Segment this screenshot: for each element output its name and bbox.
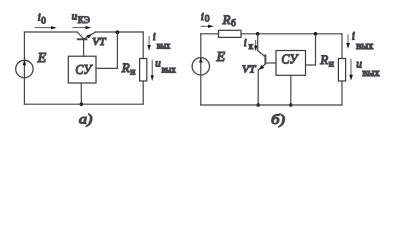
current source E (circle) circuit a: [16, 60, 33, 77]
wire: left branch of circuit b: [200, 34, 202, 105]
svg-text:н: н: [130, 67, 135, 77]
svg-text:0: 0: [41, 15, 46, 25]
svg-text:к: к: [249, 41, 254, 51]
svg-text:б: б: [231, 18, 236, 29]
wire: feedback from output node to СУ circuit a: [96, 32, 117, 68]
svg-text:СУ: СУ: [281, 51, 299, 66]
voltage arrow u_вых circuit a: [151, 60, 153, 78]
current arrow i_вых circuit b: [347, 35, 349, 46]
wire: right branch bottom circuit a: [142, 81, 144, 104]
current source E (circle) circuit b: [192, 58, 209, 75]
svg-text:i: i: [244, 38, 247, 49]
wire: СУ bottom lead circuit a: [80, 83, 82, 104]
node: junction dot emitter to bottom wire circuit b: [256, 103, 260, 107]
wire: feedback from output node to СУ circuit b: [306, 34, 316, 65]
current arrow i0 circuit b: [201, 25, 211, 27]
svg-text:i: i: [153, 32, 156, 43]
transistor VT circuit b: emitter lead with arrow: [259, 64, 266, 70]
voltage arrow u_вых circuit b: [350, 59, 352, 77]
node: junction dot feedback tap circuit b: [314, 32, 318, 36]
svg-text:VT: VT: [242, 63, 256, 75]
svg-text:н: н: [329, 59, 334, 69]
svg-text:вых: вых: [162, 65, 177, 75]
box СУ circuit b: [276, 51, 306, 76]
svg-text:VT: VT: [92, 36, 106, 48]
transistor VT circuit a: base lead down: [83, 40, 85, 56]
wire: bottom wire circuit b: [201, 104, 342, 106]
wire: left branch of circuit a: [23, 32, 25, 104]
node: junction dot collector tap circuit b: [256, 32, 260, 36]
wire: top wire right segment circuit a: [95, 31, 143, 33]
wire: emitter down to bottom circuit b: [257, 70, 259, 105]
wire: right branch bottom circuit b: [341, 81, 343, 105]
wire: right branch top circuit a: [142, 32, 144, 59]
wire: top wire left stub circuit b: [201, 33, 219, 35]
svg-text:вых: вых: [356, 41, 373, 52]
svg-text:а): а): [79, 112, 93, 127]
transistor VT circuit b: base lead to СУ: [266, 62, 276, 64]
transistor VT circuit b: collector lead: [258, 51, 266, 58]
svg-text:0: 0: [205, 15, 210, 25]
svg-text:u: u: [72, 11, 78, 23]
svg-text:i: i: [352, 30, 355, 42]
svg-text:КЭ: КЭ: [78, 15, 90, 25]
svg-text:i: i: [38, 13, 41, 24]
resistor R_б circuit b: [219, 30, 242, 37]
current arrow i_вых circuit a: [148, 36, 150, 47]
svg-text:R: R: [319, 52, 328, 67]
transistor VT circuit a: emitter lead with arrow: [84, 32, 95, 39]
box СУ circuit a: [68, 56, 96, 83]
current arrow i_к circuit b: [255, 40, 257, 48]
wire: collector drop circuit b: [257, 34, 259, 51]
svg-text:R: R: [222, 12, 231, 27]
wire: top wire left segment circuit a: [24, 31, 77, 33]
wire: СУ bottom lead circuit b: [290, 75, 292, 105]
svg-text:E: E: [216, 50, 226, 65]
svg-text:вых: вых: [362, 68, 379, 79]
node: junction dot СУ to bottom wire circuit a: [80, 102, 84, 106]
svg-text:E: E: [37, 51, 47, 66]
node: junction dot feedback tap circuit a: [116, 30, 120, 34]
transistor VT circuit a: collector lead: [77, 32, 83, 39]
current arrow i0 circuit a: [35, 27, 54, 29]
wire: bottom wire circuit a: [24, 103, 143, 105]
wire: right branch top circuit b: [341, 34, 343, 59]
arrowhead of current source E circuit a: [23, 60, 27, 65]
svg-text:б): б): [271, 113, 285, 128]
svg-text:вых: вых: [157, 40, 171, 50]
arrowhead of current source E circuit b: [199, 57, 203, 62]
resistor R_н circuit b: [338, 59, 345, 82]
transistor VT circuit b: base bar: [264, 55, 266, 65]
transistor VT circuit a: base bar: [77, 38, 88, 40]
svg-text:u: u: [155, 57, 161, 69]
wire: top wire right segment circuit b: [241, 33, 342, 35]
svg-text:СУ: СУ: [75, 62, 93, 77]
voltage arrow u_КЭ circuit a: [73, 27, 88, 29]
node: junction dot СУ to bottom wire circuit b: [289, 103, 293, 107]
svg-text:R: R: [121, 60, 130, 75]
svg-text:i: i: [201, 11, 204, 23]
resistor R_н circuit a: [140, 59, 147, 82]
svg-text:u: u: [356, 59, 362, 71]
